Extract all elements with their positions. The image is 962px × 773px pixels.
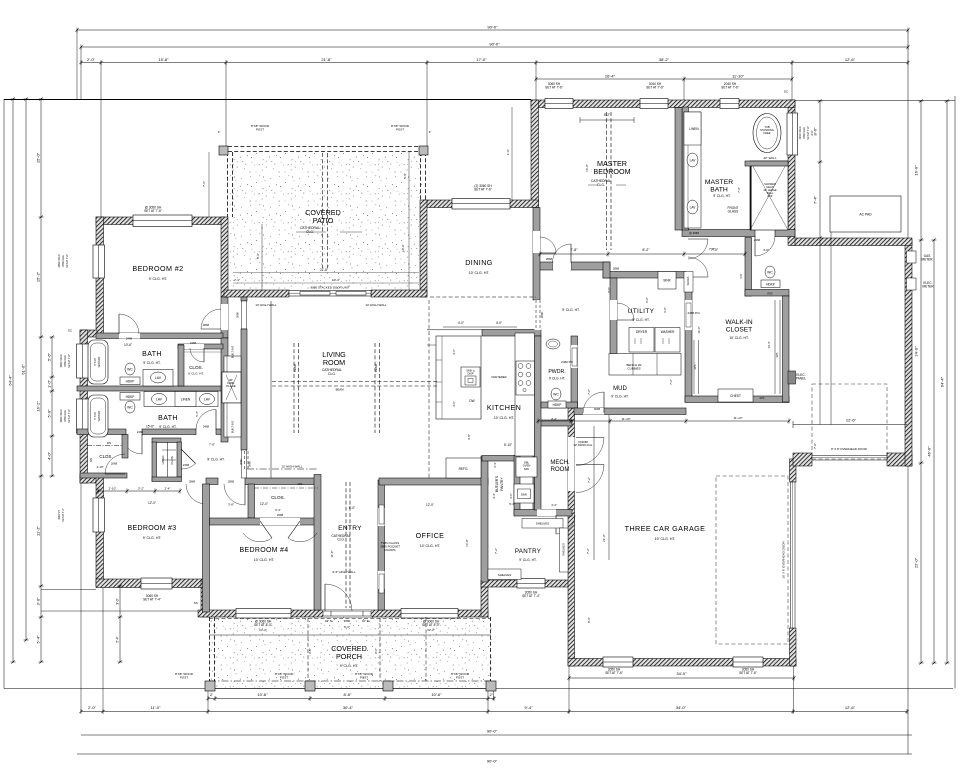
porch post a: [205, 681, 215, 691]
label 3in left: [218, 130, 221, 134]
dim mbr 8-2: [604, 113, 610, 117]
window bedroom3 south 3060 SH: [141, 578, 172, 589]
label window pantry: [522, 591, 540, 599]
label 10 high wall right: [365, 303, 386, 307]
wall butler north: [482, 456, 518, 462]
svg-text:HDKP: HDKP: [126, 395, 135, 399]
dimline patio right: [408, 152, 410, 290]
svg-text:CLG.: CLG.: [337, 538, 345, 542]
door closet4 left: [243, 521, 272, 542]
dim garage 7-2: [587, 477, 591, 483]
kitchen range: [516, 361, 535, 395]
dim mud 7-2: [587, 389, 591, 395]
svg-text:4'-0": 4'-0": [46, 451, 51, 460]
wall hall south b: [245, 478, 318, 485]
svg-text:BATH: BATH: [710, 187, 728, 194]
svg-text:SINK: SINK: [663, 279, 671, 283]
wall master bedroom west: [531, 100, 539, 207]
label 2468 c: [203, 425, 210, 429]
label window bedroom3 south: [143, 594, 161, 602]
svg-text:5'-4": 5'-4": [115, 636, 119, 642]
label overhead 16x8: [782, 541, 786, 579]
wall bedroom3 south: [96, 579, 206, 588]
dim 90-0 bottom line2: [77, 754, 912, 764]
svg-text:7'-6": 7'-6": [202, 181, 206, 187]
svg-text:CHEST: CHEST: [730, 394, 741, 398]
svg-text:MUD: MUD: [613, 386, 627, 392]
svg-text:7'-2": 7'-2": [587, 389, 591, 395]
room label butlers pantry2: [500, 477, 504, 491]
gap bedroom2 east door: [221, 304, 228, 330]
svg-text:9' CLG. HT.: 9' CLG. HT.: [159, 425, 176, 429]
elec panel: [788, 371, 796, 384]
label beam a: [293, 363, 297, 372]
label elec meter: [922, 281, 934, 289]
dim 64-4 left: [7, 97, 15, 663]
svg-text:9' CLG. HT.: 9' CLG. HT.: [519, 558, 536, 562]
dim kitchen 5-10: [504, 443, 512, 447]
svg-text:2468: 2468: [126, 337, 133, 341]
svg-text:6'-4": 6'-4": [275, 508, 281, 512]
svg-text:8'-2": 8'-2": [642, 248, 650, 252]
svg-text:3'-8": 3'-8": [228, 503, 234, 507]
gap closet pocket door: [685, 300, 692, 330]
door 2068 closet bed3: [105, 454, 125, 474]
ext line x81 bottom: [80, 483, 82, 712]
label sc right: [784, 90, 789, 94]
svg-text:3'-6": 3'-6": [739, 273, 743, 278]
room sub garage: [655, 537, 676, 541]
dim wc 3-6: [739, 273, 743, 278]
label window bedroom2 west b: [62, 255, 65, 267]
svg-text:10' CLG. HT.: 10' CLG. HT.: [494, 416, 515, 420]
room sub utility: [632, 318, 649, 322]
wall pantry south: [481, 580, 574, 587]
svg-text:9'-4": 9'-4": [525, 705, 534, 710]
label window ext obscure a: [799, 126, 802, 139]
dim kitchen 4-0a: [458, 321, 464, 325]
label 3080 living south: [248, 461, 252, 467]
wall pwdr-kitchen west: [535, 336, 542, 510]
patio inner line 2-4 offset: [233, 272, 419, 274]
label window bath west lower a: [60, 409, 63, 422]
svg-text:3080: 3080: [239, 459, 243, 465]
lav bath lower b: [200, 394, 215, 405]
master cathedral arrows: [588, 184, 626, 186]
wall bath closet: [178, 345, 184, 386]
dim patio 7-6: [202, 181, 206, 187]
room sub patio cathedral: [300, 226, 320, 234]
svg-text:2'-10": 2'-10": [109, 486, 117, 490]
label window bedroom2 north: [144, 206, 162, 214]
wall bath north / bedroom2 south: [96, 333, 223, 339]
label window bedroom4 south: [254, 620, 272, 628]
svg-text:8'-6": 8'-6": [587, 617, 591, 623]
room label master bedroom: [593, 159, 630, 176]
wall master bed-bath divider: [675, 108, 682, 231]
svg-text:3060 FIXED: 3060 FIXED: [60, 354, 63, 367]
svg-text:3": 3": [218, 130, 221, 134]
dim butler 5-4: [509, 502, 515, 506]
ext line bed3 south: [41, 589, 96, 591]
label 3in right: [429, 130, 432, 134]
svg-text:WASHER: WASHER: [661, 330, 676, 334]
wall mech north / mud south: [533, 420, 572, 426]
wall garage east lower: [790, 628, 797, 666]
dim patio 2-4: [234, 278, 240, 282]
closet rod right: [775, 300, 780, 394]
porch south line: [205, 688, 496, 690]
wall baths divider: [77, 386, 223, 391]
dim kitchen 4-0b: [496, 321, 502, 325]
svg-text:4'-0": 4'-0": [496, 321, 502, 325]
svg-text:9' CLG. HT.: 9' CLG. HT.: [207, 458, 224, 462]
closet rod left: [694, 340, 699, 394]
room sub walkin: [729, 336, 748, 340]
ext line front wall left: [41, 610, 206, 612]
overhead door 16x8 panel: [791, 482, 796, 628]
label 10 high wall hall: [281, 465, 302, 469]
label overhead 8x8: [831, 447, 867, 451]
label gas meter: [921, 254, 933, 262]
patio cathedral arrows: [296, 231, 362, 233]
ext line x488: [487, 688, 489, 712]
window pantry south 3050 SH: [517, 579, 545, 589]
dim right frame vertical: [907, 30, 909, 754]
svg-text:10' CLG. HT.: 10' CLG. HT.: [254, 558, 275, 562]
label wood post patio left: [251, 124, 270, 131]
dim hall 2-10: [0, 0, 1, 1]
gap bedroom2 door: [119, 333, 140, 339]
dim closet row: [536, 419, 790, 424]
svg-text:DINING: DINING: [465, 258, 493, 267]
room sub bath lower: [159, 425, 176, 429]
svg-text:8'-6": 8'-6": [344, 692, 353, 697]
svg-text:46'-0": 46'-0": [927, 446, 932, 457]
ridge entry a: [345, 482, 347, 608]
beam living vertical b2: [379, 343, 381, 433]
wall hall south a: [206, 478, 218, 485]
svg-text:3068: 3068: [594, 407, 601, 411]
label window garage a: [605, 668, 623, 676]
porch inner edge line: [209, 634, 491, 636]
svg-text:BEDROOM #2: BEDROOM #2: [132, 264, 183, 273]
svg-text:SHELVES: SHELVES: [498, 573, 512, 577]
svg-text:11'-10": 11'-10": [733, 416, 742, 420]
svg-text:PLACE: PLACE: [226, 384, 235, 388]
svg-text:SET AT 7'-6": SET AT 7'-6": [68, 354, 71, 368]
label rs closet bottom: [760, 396, 765, 400]
room label pantry: [515, 548, 541, 555]
svg-text:10" SL: 10" SL: [325, 619, 334, 623]
patio dashed edge right outer: [420, 152, 422, 200]
svg-text:2868: 2868: [189, 480, 196, 484]
dim bedroom4 window 13-2: [259, 628, 267, 632]
svg-text:CLOS.: CLOS.: [170, 455, 174, 464]
ext line x792: [791, 63, 793, 101]
sink butler: [514, 484, 534, 503]
svg-text:PANEL: PANEL: [796, 377, 806, 381]
dimline patio 8-0: [261, 224, 263, 290]
door 3068 mech a: [576, 438, 604, 466]
label 3068 mud: [594, 407, 601, 411]
label linen vert: [161, 456, 165, 465]
door 2468 bedroom2: [119, 314, 139, 334]
porch beam dash b: [379, 618, 381, 681]
label 2668 clos4: [277, 513, 284, 517]
svg-text:POST: POST: [396, 127, 404, 131]
svg-text:10'-6": 10'-6": [124, 343, 132, 347]
wall mech-pantry divider: [514, 510, 572, 517]
svg-text:SET AT 7'-6": SET AT 7'-6": [605, 671, 623, 675]
svg-text:16'-0": 16'-0": [585, 164, 589, 172]
svg-text:R/S: R/S: [107, 441, 112, 445]
linen shelf lines: [162, 450, 176, 460]
dim hall 7-8: [209, 443, 215, 447]
svg-text:DOORS: DOORS: [384, 548, 395, 552]
wall garage door jamb SE: [793, 453, 812, 466]
svg-text:10' CLG. HT.: 10' CLG. HT.: [729, 336, 748, 340]
ext line garage sw: [568, 666, 570, 713]
svg-text:2'-4": 2'-4": [165, 486, 171, 490]
label wood post porch b: [275, 672, 294, 679]
wall pwdr east: [571, 336, 578, 408]
door swing front entry: [325, 584, 352, 611]
gap closet4 door: [260, 518, 300, 525]
dash kitchen-living boundary: [428, 300, 430, 478]
label 2468 bath closet: [190, 341, 197, 345]
label rs closet bed3 v: [89, 458, 93, 463]
svg-text:14'-8": 14'-8": [465, 539, 469, 547]
svg-text:10' HIGH WALL: 10' HIGH WALL: [255, 303, 276, 307]
svg-text:3'-0": 3'-0": [509, 493, 513, 499]
beam living vertical b1: [374, 343, 376, 433]
svg-text:CENTERED: CENTERED: [491, 375, 506, 379]
label 2468 linen: [183, 463, 190, 467]
label rs closet right: [775, 353, 779, 358]
sink pwdr: [546, 339, 560, 349]
label wood post porch d: [451, 672, 470, 679]
beam living vertical a1: [293, 343, 295, 433]
svg-text:REFG.: REFG.: [459, 467, 469, 471]
label 3080 living north: [236, 312, 240, 318]
label wood post patio right: [391, 124, 410, 131]
svg-text:HDKP: HDKP: [553, 403, 562, 407]
vanity master bath: [684, 112, 701, 228]
svg-text:MW: MW: [524, 467, 529, 471]
wall pwdr south: [541, 402, 578, 408]
label window bedroom3 west a: [58, 510, 61, 520]
svg-text:11'-10": 11'-10": [621, 417, 630, 421]
svg-text:2468: 2468: [137, 430, 144, 434]
svg-text:BUILT-INS: BUILT-INS: [231, 421, 235, 433]
wall closet4 west: [248, 484, 255, 518]
svg-text:CUBBIES: CUBBIES: [627, 366, 640, 370]
svg-text:3080: 3080: [540, 311, 544, 318]
svg-text:SET AT 7'-6": SET AT 7'-6": [646, 86, 664, 90]
wall front south: [198, 610, 488, 617]
label window dining: [474, 184, 492, 192]
label window bath west upper c: [68, 354, 71, 368]
dim garage right 7-0: [0, 0, 1, 1]
svg-text:3'-0": 3'-0": [115, 598, 119, 604]
label 96 high wall: [332, 570, 356, 574]
svg-text:12'-0": 12'-0": [148, 501, 156, 505]
svg-text:21'-0": 21'-0": [602, 534, 606, 542]
gap kitchen opening 3080: [535, 300, 542, 330]
label sc bath west: [68, 329, 73, 333]
svg-text:5'-4": 5'-4": [509, 502, 515, 506]
svg-text:10' HIGH WALL: 10' HIGH WALL: [281, 465, 302, 469]
chest closet: [718, 389, 753, 402]
window bedroom2 west: [93, 245, 105, 278]
label window bedroom2 west c: [66, 254, 69, 268]
room label dining: [465, 258, 493, 267]
svg-text:8'-0": 8'-0": [308, 648, 312, 654]
label shower: [763, 182, 777, 198]
window 3050 SH bedroom2 north: [133, 215, 192, 227]
dim garage bottom 34-0: [567, 671, 795, 681]
door 2468 linen diag: [181, 449, 196, 469]
svg-text:2868: 2868: [613, 267, 620, 271]
ext line x820 lower: [819, 238, 821, 425]
svg-text:SHELVES: SHELVES: [536, 522, 550, 526]
garage dim ext a: [593, 426, 595, 560]
svg-text:WC: WC: [553, 393, 559, 397]
wall linen-vanity east: [682, 107, 689, 230]
label centered: [491, 375, 506, 379]
room label butlers pantry: [495, 475, 499, 492]
wall closet bed3 south: [80, 473, 127, 478]
wall baths south c: [216, 429, 223, 435]
wall jog bath west lower: [80, 476, 97, 483]
patio dashed edge right inner: [425, 152, 427, 200]
dim pantry 7-2b: [586, 548, 590, 554]
door 2468 bath2-hall: [122, 434, 142, 454]
dim bottom row2: [79, 705, 908, 714]
porch dash-dot south: [209, 680, 493, 682]
dash high wall hall: [247, 468, 318, 470]
dimline kitchen 4-0: [443, 326, 517, 328]
reference line top of house: [4, 99, 531, 101]
svg-text:R/S: R/S: [298, 482, 303, 486]
pocket door closet 2480: [686, 303, 691, 327]
svg-text:4'-10": 4'-10": [96, 465, 103, 469]
svg-text:9' CLG. HT.: 9' CLG. HT.: [149, 277, 168, 281]
wall bedroom2 north: [96, 217, 225, 225]
toilet wc master: [765, 266, 775, 278]
room label master bath: [705, 179, 733, 194]
dim office 12-0: [426, 503, 434, 507]
dim patio 10-0: [401, 244, 405, 252]
dim ext door 7-0: [813, 443, 817, 449]
svg-text:11'-10": 11'-10": [732, 73, 745, 78]
svg-text:1'-0": 1'-0": [46, 379, 51, 388]
builtin lower: [224, 403, 241, 437]
opening hall-living dash b: [247, 451, 249, 471]
svg-text:WC: WC: [127, 406, 133, 410]
door 3068 mud: [583, 392, 604, 413]
ext line x536: [535, 63, 537, 101]
svg-text:16' X 8' OVERHEAD DOOR: 16' X 8' OVERHEAD DOOR: [782, 541, 786, 579]
svg-text:LINEN: LINEN: [181, 397, 191, 401]
label window office south: [422, 620, 440, 628]
patio dashed edge left inner: [232, 152, 234, 217]
hdkp bath upper: [120, 377, 140, 385]
toilet wc pwdr: [551, 388, 561, 400]
closet bed4 shelf: [254, 487, 318, 489]
svg-text:8'-0": 8'-0": [607, 287, 611, 293]
svg-text:ROOM: ROOM: [323, 358, 345, 367]
svg-text:19'-4": 19'-4": [332, 278, 340, 282]
overhead door 8x8 panel: [812, 456, 887, 461]
dimline mbr 8-2: [580, 117, 634, 123]
tub bath upper: [88, 340, 108, 384]
svg-text:R/S: R/S: [767, 292, 772, 296]
svg-text:BEDROOM #4: BEDROOM #4: [240, 547, 289, 554]
svg-text:4'-4": 4'-4": [551, 503, 557, 507]
svg-text:30'-4": 30'-4": [343, 705, 354, 710]
wall wc south: [745, 290, 789, 297]
svg-text:POST: POST: [280, 675, 288, 679]
room label covered porch: [331, 644, 367, 661]
label builtins upper: [231, 346, 235, 358]
kitchen top counter line: [427, 330, 482, 345]
svg-text:BEDROOM: BEDROOM: [593, 167, 630, 176]
svg-text:10' CLG. HT.: 10' CLG. HT.: [469, 271, 490, 275]
dim closet 11-10: [733, 416, 742, 420]
svg-text:PANTRY: PANTRY: [500, 477, 504, 491]
label 3080 kitchen: [540, 311, 544, 318]
svg-text:16'-0": 16'-0": [914, 165, 919, 176]
room sub master bath: [713, 194, 730, 198]
porch dashed edge left b: [214, 617, 216, 688]
wall mud south: [574, 408, 686, 415]
door pantry: [556, 515, 575, 534]
svg-text:2468: 2468: [754, 238, 761, 242]
builtin upper: [224, 356, 241, 372]
svg-text:6'-0": 6'-0": [645, 297, 649, 303]
wall jog bath west upper: [80, 330, 97, 337]
label 2480 pd pwdr: [561, 360, 574, 364]
dim right frame line: [954, 96, 956, 689]
label dw: [469, 399, 474, 403]
label elec panel: [796, 373, 806, 381]
lav master a: [687, 153, 698, 167]
dash dining-living boundary: [430, 296, 536, 298]
dim mud row 4-4: [551, 417, 557, 421]
svg-text:24'-0": 24'-0": [914, 346, 919, 357]
label front door sl b: [362, 619, 371, 623]
wall garage east upper: [790, 459, 797, 482]
dim bottom frame line: [4, 688, 953, 690]
svg-text:10'-0": 10'-0": [401, 244, 405, 252]
shelves pantry right: [560, 528, 569, 572]
svg-text:SET AT 7'-6": SET AT 7'-6": [739, 671, 757, 675]
svg-text:SET AT 7'-6": SET AT 7'-6": [144, 209, 162, 213]
svg-text:16'-0": 16'-0": [697, 326, 701, 333]
svg-text:SET AT 7'-6": SET AT 7'-6": [721, 86, 739, 90]
wall master bath south b: [775, 230, 795, 237]
fireplace 36in: [222, 372, 241, 403]
label window bath west lower c: [68, 409, 71, 423]
wall baths west: [80, 330, 88, 483]
shelves pantry left: [488, 569, 521, 580]
dim office 14-8: [465, 539, 469, 547]
svg-text:BUTLER'S: BUTLER'S: [495, 475, 499, 492]
svg-text:4'-6": 4'-6": [452, 349, 456, 355]
wall jog bedroom3-4: [201, 581, 209, 617]
